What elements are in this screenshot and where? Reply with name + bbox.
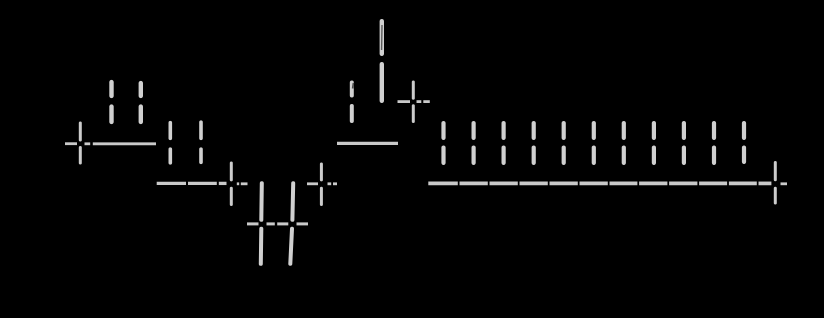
wire: long right bus (y=183.4): [428, 182, 771, 186]
wire: lower-left bus (y=184): [157, 182, 227, 185]
wire: node A to capacitor bank (y=143): [85, 142, 157, 145]
junction node C (cross at x=321): [320, 164, 323, 205]
capacitor comb bar 4 (x=533.7): [532, 123, 536, 163]
antenna lead bar (tall, x=381.8): [380, 21, 384, 101]
capacitor comb bar 10 (x=714): [712, 123, 716, 163]
capacitor comb bar 2 (x=473.6): [472, 123, 476, 163]
capacitor plate bar 7 (x=351.8): [350, 83, 354, 122]
antenna lead bar hollow core detail: [381, 25, 383, 50]
wire: center baseline (y=143): [337, 142, 398, 145]
wire: stub right of node E: [781, 182, 788, 185]
capacitor comb bar 5 (x=563.7): [562, 123, 566, 163]
wire: right arm of node C: [328, 182, 338, 185]
capacitor comb bar 3 (x=503.6): [502, 123, 506, 163]
capacitor comb bar 8 (x=653.9): [652, 123, 656, 163]
junction node B (cross at x=231): [230, 163, 233, 205]
capacitor plate bar 2 (x=140.8): [139, 83, 143, 122]
junction node A (left cross): [79, 123, 82, 163]
wire: left arm of node C: [307, 182, 318, 185]
wire: right arm of node D: [417, 100, 430, 103]
capacitor comb bar 11 (x=744): [742, 123, 746, 162]
wire: left arm of node D: [398, 100, 411, 103]
capacitor plate bar 5 (x=261.5, upper): [261, 183, 262, 263]
capacitor plate bar 4 (x=201): [199, 122, 203, 162]
capacitor plate bar 3 (x=170.3): [169, 123, 173, 163]
junction node E (right cross at x=775): [774, 163, 777, 204]
capacitor comb bar 6 (x=593.8): [592, 123, 596, 163]
junction node D (cross at x=413): [412, 82, 415, 122]
capacitor plate bar 6 (x=292, leaning): [290, 183, 293, 263]
capacitor comb bar 7 (x=623.8): [622, 123, 626, 163]
capacitor plate bar 1 (x=111.5): [109, 82, 113, 122]
wire: stub right of node B: [237, 182, 248, 185]
capacitor comb bar 9 (x=683.9): [682, 123, 686, 163]
wire: left arm of node A: [65, 142, 77, 145]
wire: lower tap line (y=224): [247, 222, 308, 225]
bar 7 hand-drawn notch detail: [352, 83, 355, 89]
capacitor comb bar 1 (x=443.5): [441, 123, 445, 163]
